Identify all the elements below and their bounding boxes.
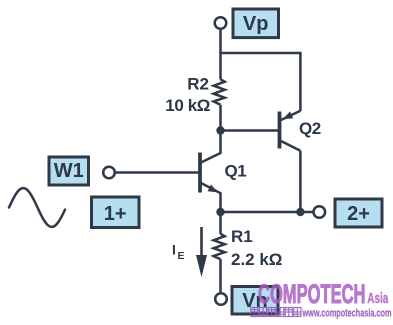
svg-text:www.compotechasia.com: www.compotechasia.com <box>302 308 392 320</box>
transistor Q1 <box>200 131 221 213</box>
watermark COMPOTECH <box>258 279 366 309</box>
R1 value label 2.2 kOhm <box>231 250 282 269</box>
wire bottom rail <box>221 211 314 214</box>
current IE arrow <box>196 227 207 277</box>
source sine symbol <box>9 188 65 227</box>
svg-text:W1: W1 <box>54 160 84 182</box>
transistor Q2 <box>280 111 301 151</box>
wire top branch to Q2 emitter <box>219 53 300 111</box>
svg-text:10 kΩ: 10 kΩ <box>165 96 210 115</box>
svg-text:I: I <box>172 242 176 258</box>
svg-text:Asia: Asia <box>367 290 388 307</box>
label W1 <box>49 157 89 185</box>
svg-text:Q2: Q2 <box>299 119 321 138</box>
R2 value label 10 kOhm <box>165 96 210 115</box>
terminal Vp <box>215 17 227 29</box>
svg-text:1+: 1+ <box>104 203 127 225</box>
watermark url <box>302 308 392 320</box>
wire node to R1 <box>219 212 222 234</box>
label Q1 <box>225 162 247 181</box>
wire Q2 collector to output node <box>299 151 302 212</box>
node junction R2 / Q1 collector / Q2 base <box>216 126 224 134</box>
wire node to Q2 base <box>221 129 279 132</box>
label Q2 <box>299 119 321 138</box>
label 2+ <box>335 199 382 227</box>
svg-text:2+: 2+ <box>347 203 370 225</box>
watermark chinese characters <box>251 308 301 317</box>
resistor R2 <box>214 79 225 105</box>
wire R1 to Vn terminal <box>219 259 222 293</box>
svg-text:R2: R2 <box>187 75 209 94</box>
terminal output 2+ <box>314 206 326 218</box>
watermark Asia <box>367 290 388 307</box>
R2 ref label <box>187 75 209 94</box>
svg-text:R1: R1 <box>231 227 253 246</box>
current IE label <box>172 242 185 263</box>
wire R2 bottom to node <box>219 105 222 131</box>
label Vn <box>232 287 278 315</box>
svg-text:Vp: Vp <box>243 13 269 35</box>
wire W1 terminal to Q1 base <box>115 171 199 174</box>
svg-text:2.2 kΩ: 2.2 kΩ <box>231 250 282 269</box>
R1 ref label <box>231 227 253 246</box>
svg-text:Q1: Q1 <box>225 162 247 181</box>
terminal W1 <box>103 167 115 179</box>
terminal Vn <box>215 293 227 305</box>
node junction Q1 emitter / R1 <box>216 208 224 216</box>
resistor R1 <box>214 234 225 259</box>
svg-text:E: E <box>178 250 185 262</box>
node junction Q2 collector / output <box>296 208 304 216</box>
svg-text:COMPOTECH: COMPOTECH <box>258 279 366 309</box>
label Vp <box>233 9 279 38</box>
label 1+ <box>92 197 140 228</box>
wire Vp terminal to rail <box>219 29 222 80</box>
